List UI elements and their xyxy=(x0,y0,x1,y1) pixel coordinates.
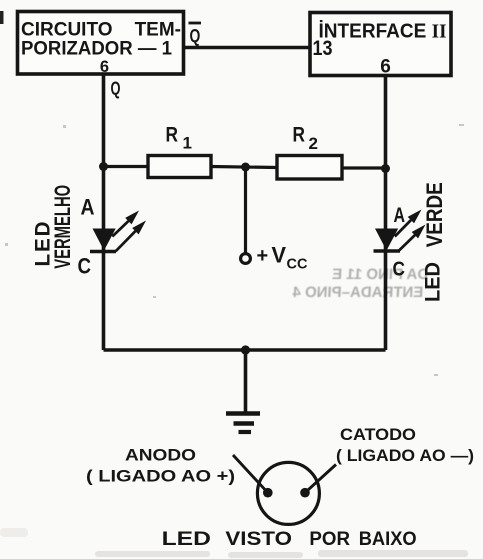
LED D2 cathode bar xyxy=(374,249,401,252)
resistor R2 xyxy=(277,156,342,180)
svg-text:R: R xyxy=(166,124,179,147)
svg-text:A: A xyxy=(394,204,406,227)
LED bottom view circle xyxy=(257,462,319,524)
svg-text:CIRCUITO: CIRCUITO xyxy=(21,20,112,41)
wire R1 to node xyxy=(211,167,277,168)
wire ground stem xyxy=(244,350,248,412)
resistor R1 xyxy=(148,156,211,178)
svg-text:Q: Q xyxy=(190,25,201,46)
box U1 CIRCUITO TEMPORIZADOR-1 xyxy=(18,12,184,75)
bottom edge scan smudges xyxy=(0,528,468,558)
caption LED VISTO POR BAIXO xyxy=(162,528,417,550)
svg-text:2: 2 xyxy=(309,134,318,153)
box U2 INTERFACE II xyxy=(310,13,451,76)
LED D2 arrow 2 xyxy=(399,225,426,252)
cathode pointer line xyxy=(305,465,336,493)
svg-text:( LIGADO AO —): ( LIGADO AO —) xyxy=(336,446,474,465)
svg-text:6: 6 xyxy=(100,58,109,76)
svg-text:ENTRADA–PINO 4: ENTRADA–PINO 4 xyxy=(291,284,423,301)
svg-text:BAIXO: BAIXO xyxy=(359,528,417,550)
R2 label xyxy=(293,124,318,154)
wire R2 to right xyxy=(342,166,386,169)
LED D1 arrow 1 xyxy=(112,211,139,237)
scan artifact left edge mark xyxy=(0,11,4,24)
wire resistor row xyxy=(104,165,149,168)
svg-text:C: C xyxy=(393,259,406,281)
LED D1 cathode bar xyxy=(90,250,116,253)
svg-text:13: 13 xyxy=(313,37,333,60)
svg-text:VERDE: VERDE xyxy=(422,182,447,247)
wire right vertical (U2 pin6 down) xyxy=(384,76,388,350)
svg-text:V: V xyxy=(272,243,287,268)
svg-text:CATODO: CATODO xyxy=(340,425,416,444)
Q-bar output label xyxy=(189,23,202,46)
R1 label xyxy=(166,124,192,153)
svg-text:VERMELHO: VERMELHO xyxy=(50,185,75,269)
ghost bleed-through text right middle xyxy=(291,266,428,301)
LED D2 arrow 1 xyxy=(395,210,422,237)
scan specks xyxy=(5,124,464,376)
svg-text:LED: LED xyxy=(421,262,445,302)
svg-text:POR: POR xyxy=(309,528,350,550)
+Vcc label xyxy=(257,243,308,273)
junction dot right xyxy=(381,164,390,173)
svg-text:VISTO: VISTO xyxy=(225,528,292,550)
svg-text:TEM-: TEM- xyxy=(135,20,181,41)
wire left vertical (U1 pin6 down) xyxy=(102,75,106,350)
svg-text:1: 1 xyxy=(183,134,192,153)
LED bottom view cathode lead dot xyxy=(300,488,310,498)
svg-text:CC: CC xyxy=(287,257,308,273)
svg-text:DA PINO 11 E: DA PINO 11 E xyxy=(332,266,429,283)
wire Q-bar U1 to U2 xyxy=(184,46,310,50)
svg-text:6: 6 xyxy=(380,57,391,78)
svg-text:ANODO: ANODO xyxy=(125,446,196,465)
junction dot center node xyxy=(241,163,250,172)
svg-text:LED: LED xyxy=(162,528,211,550)
anode pointer line xyxy=(233,455,268,493)
svg-text:C: C xyxy=(78,254,92,279)
svg-text:İNTERFACE II: İNTERFACE II xyxy=(319,20,447,43)
svg-text:( LIGADO AO +): ( LIGADO AO +) xyxy=(86,467,235,486)
svg-text:PORIZADOR — 1: PORIZADOR — 1 xyxy=(21,39,172,60)
LED bottom view anode lead dot xyxy=(263,488,273,498)
LED D1 triangle xyxy=(93,229,116,251)
wire bottom rail xyxy=(104,348,386,351)
LED D2 triangle xyxy=(375,229,398,251)
svg-text:Q: Q xyxy=(111,79,121,99)
svg-text:R: R xyxy=(293,124,306,147)
wire Vcc drop xyxy=(244,167,247,254)
junction dot bottom xyxy=(241,345,250,354)
Vcc terminal circle xyxy=(241,254,251,264)
LED D1 arrow 2 xyxy=(116,221,146,252)
svg-text:+: + xyxy=(257,245,269,267)
svg-text:A: A xyxy=(81,195,95,220)
ground symbol xyxy=(226,414,260,433)
junction dot left xyxy=(99,162,108,171)
